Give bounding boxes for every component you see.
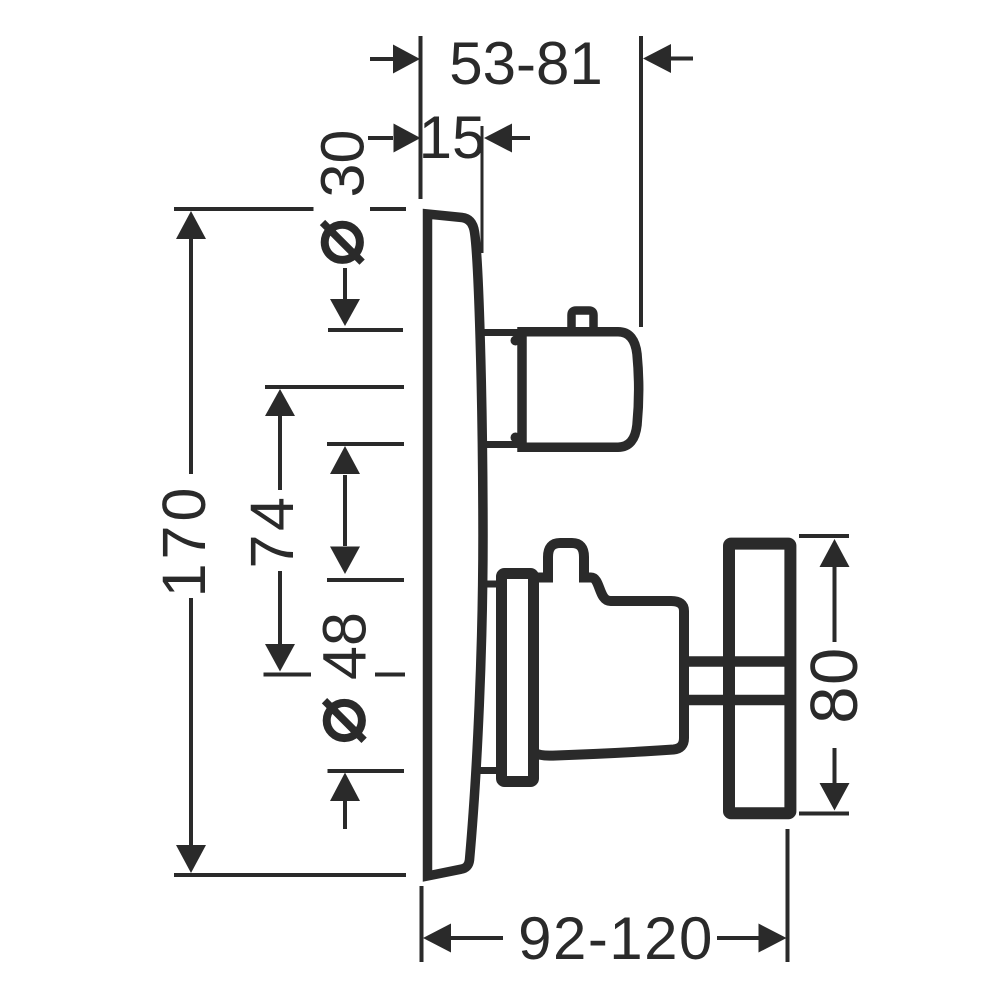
- svg-text:92-120: 92-120: [518, 905, 714, 972]
- svg-text:80: 80: [797, 646, 872, 724]
- svg-text:48: 48: [311, 612, 379, 680]
- svg-text:170: 170: [150, 484, 218, 598]
- svg-text:53-81: 53-81: [449, 30, 602, 97]
- svg-text:74: 74: [238, 494, 306, 569]
- svg-text:15: 15: [419, 104, 486, 171]
- svg-text:30: 30: [309, 130, 377, 198]
